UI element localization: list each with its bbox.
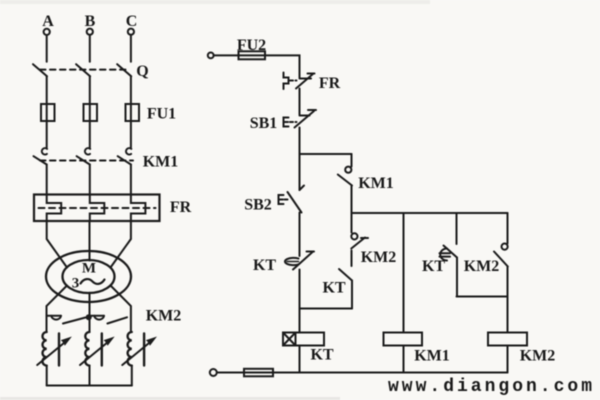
- wire Q to FU1 phase C: [130, 76, 132, 104]
- wire rheostat C to bus: [131, 366, 133, 386]
- time relay KT delayed-closing contact: [440, 246, 458, 261]
- wire branch2 return to main: [300, 308, 353, 310]
- wire KT contact down to coil: [299, 270, 301, 333]
- wire KT coil to bottom bus: [299, 346, 301, 373]
- wire FR to motor lead A: [47, 221, 67, 268]
- stop button SB1 normally-closed: [284, 110, 317, 128]
- wire KM2 aux down: [507, 267, 509, 333]
- svg-text:C: C: [126, 13, 138, 30]
- wire FU1 to KM1 phase B: [89, 121, 91, 148]
- svg-text:SB2: SB2: [244, 197, 272, 214]
- rheostat core bar phase C: [143, 334, 145, 366]
- control bottom terminal: [210, 369, 217, 376]
- contactor KM2 aux contact normally-open: [494, 213, 508, 267]
- wire KM2 coil to bus: [507, 346, 509, 373]
- svg-text:KM2: KM2: [361, 249, 397, 266]
- svg-text:FU1: FU1: [147, 106, 176, 123]
- wire rheostat B to bus: [89, 366, 91, 386]
- wire KM1 to FR phase C: [130, 165, 132, 195]
- svg-text:3: 3: [72, 276, 80, 292]
- svg-text:B: B: [85, 13, 96, 30]
- rotor bottom bus wire: [47, 385, 132, 387]
- wire B to switch Q: [89, 35, 91, 62]
- wire C to switch Q: [130, 35, 132, 62]
- svg-text:KM2: KM2: [146, 308, 182, 325]
- contactor KM2 interlock contact normally-closed: [351, 213, 368, 249]
- svg-text:FR: FR: [319, 75, 341, 92]
- terminal A: [44, 29, 50, 35]
- wire terminal to FU2: [214, 54, 238, 56]
- svg-text:Q: Q: [136, 63, 148, 80]
- wire KM1 coil to bus: [403, 346, 405, 373]
- control top terminal: [208, 53, 214, 59]
- wire FR to SB1: [299, 89, 301, 115]
- wire FR to motor lead B: [89, 221, 91, 261]
- wire Q to FU1 phase A: [46, 76, 48, 104]
- thermal relay FR heater phase B: [90, 195, 105, 222]
- svg-text:FU2: FU2: [237, 37, 266, 54]
- wire SB1 to junction: [299, 128, 301, 155]
- svg-text:KT: KT: [253, 257, 276, 274]
- wire FU1 to KM1 phase C: [130, 121, 132, 148]
- svg-text:KM1: KM1: [414, 348, 450, 365]
- rheostat coil phase B: [85, 332, 89, 366]
- contactor KM1 linkage dashed: [40, 160, 133, 162]
- svg-text:KM2: KM2: [464, 258, 500, 275]
- rheostat coil phase C: [128, 332, 132, 366]
- contactor coil KM2: [488, 333, 527, 346]
- switch Q pole B: [76, 64, 90, 76]
- time relay coil KT: [283, 333, 324, 346]
- wire A to switch Q: [46, 35, 48, 62]
- rheostat coil phase A: [43, 332, 47, 366]
- wire rheostat A to bus: [46, 366, 48, 386]
- wire FU2 to corner: [265, 55, 300, 77]
- thermal contact FR normally-closed: [284, 73, 315, 90]
- rotor lead right: [111, 286, 131, 333]
- terminal B: [87, 29, 93, 35]
- wire bottom link branch4-5: [457, 296, 508, 298]
- contactor KM1 aux contact normally-open: [338, 154, 352, 186]
- switch Q pole C: [117, 64, 131, 76]
- rheostat core bar phase A: [58, 334, 60, 366]
- rheostat arrow phase A: [37, 338, 70, 366]
- junction dot rotor middle: [86, 314, 92, 320]
- terminal C: [128, 29, 134, 35]
- thermal relay FR heater phase C: [131, 195, 146, 222]
- control top bus wire: [352, 212, 508, 214]
- fuse FU1 phase B: [84, 104, 98, 121]
- svg-text:KM2: KM2: [520, 348, 556, 365]
- wire KM1 to FR phase B: [89, 165, 91, 195]
- control bottom bus wire: [273, 372, 508, 374]
- svg-text:M: M: [82, 261, 96, 277]
- fuse FU1 phase A: [41, 104, 55, 121]
- time relay KT aux contact normally-open: [339, 251, 352, 281]
- svg-text:A: A: [42, 13, 54, 30]
- wire branch3 KM1 coil: [403, 213, 405, 333]
- thermal relay FR linkage dashed: [39, 207, 156, 209]
- svg-text:KT: KT: [322, 280, 345, 297]
- fuse FU2: [239, 51, 266, 59]
- contactor coil KM1: [384, 333, 423, 346]
- time relay KT delayed-opening contact: [285, 252, 314, 270]
- rotor lead left: [47, 286, 68, 333]
- thermal relay FR box: [34, 195, 160, 222]
- bottom fuse: [244, 369, 273, 377]
- wire branch4 KT delayed contact: [456, 213, 458, 244]
- svg-text:KT: KT: [422, 258, 445, 275]
- rheostat arrow phase C: [122, 338, 155, 366]
- svg-text:KM1: KM1: [358, 175, 394, 192]
- wire KM1 to FR phase A: [46, 165, 48, 195]
- wire SB2 to KT contact: [299, 213, 301, 257]
- svg-text:FR: FR: [170, 199, 192, 216]
- contactor KM1 main contact pole C: [118, 148, 132, 164]
- wire KT delayed to bottom link: [456, 258, 458, 297]
- wire junction to KM1 aux branch: [300, 153, 352, 155]
- rheostat arrow phase B: [80, 338, 113, 366]
- svg-text:www.diangon.com: www.diangon.com: [388, 377, 592, 397]
- switch Q pole A: [33, 64, 47, 76]
- wire FR to motor lead C: [111, 221, 131, 268]
- rotor lead middle: [89, 293, 91, 332]
- fuse FU1 phase C: [126, 104, 140, 121]
- rheostat core bar phase B: [101, 334, 103, 366]
- wire bottom terminal to fuse: [217, 372, 244, 374]
- switch Q linkage dashed: [40, 69, 127, 71]
- thermal relay FR heater phase A: [47, 195, 62, 222]
- svg-text:KM1: KM1: [143, 154, 179, 171]
- contactor KM1 main contact pole B: [77, 148, 91, 164]
- wire KT aux down to return: [351, 281, 353, 309]
- wire FU1 to KM1 phase A: [46, 121, 48, 148]
- contactor KM1 main contact pole A: [34, 148, 48, 164]
- wire KM1 aux to junction: [351, 186, 353, 214]
- motor M inner circle: [63, 260, 115, 293]
- motor M outer circle: [46, 251, 131, 302]
- wire Q to FU1 phase B: [89, 76, 91, 104]
- contactor KM2 shorting contact right: [90, 316, 128, 324]
- svg-text:SB1: SB1: [250, 115, 278, 132]
- contactor KM2 shorting contact left: [47, 316, 86, 324]
- start button SB2 normally-open: [279, 154, 305, 213]
- svg-text:KT: KT: [310, 347, 333, 364]
